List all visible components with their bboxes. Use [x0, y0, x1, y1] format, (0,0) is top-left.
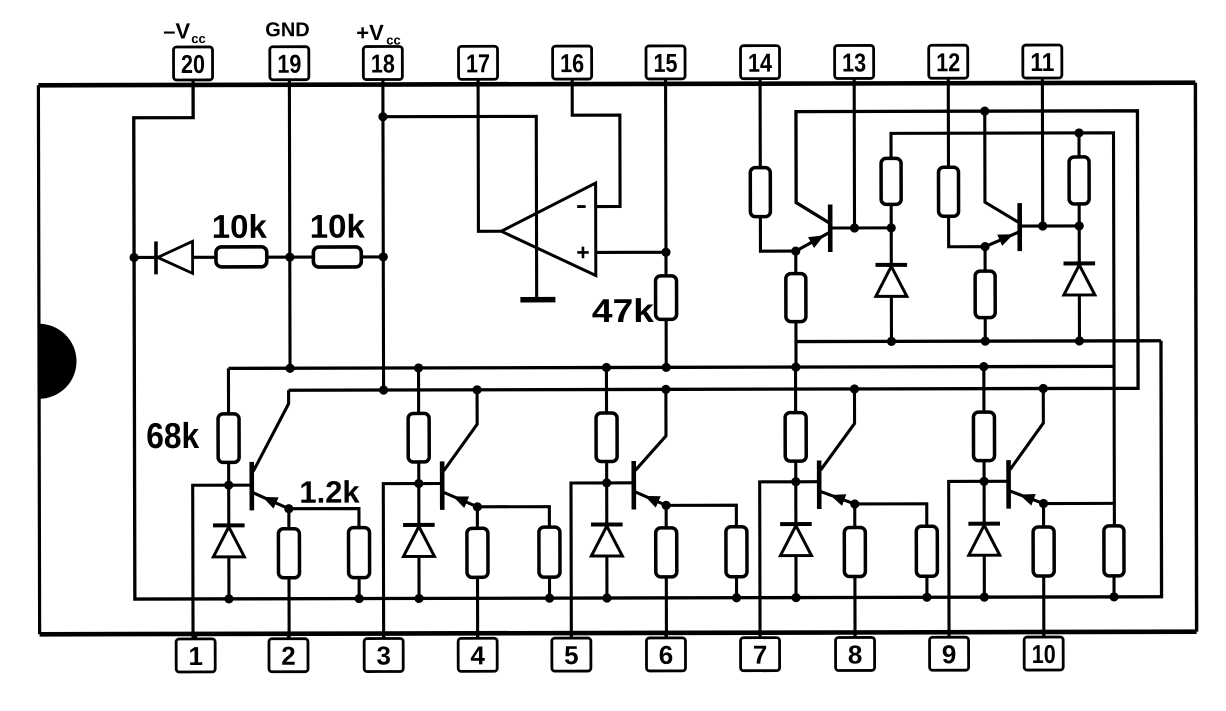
svg-text:68k: 68k — [146, 415, 200, 456]
svg-text:GND: GND — [265, 19, 310, 41]
svg-text:16: 16 — [560, 48, 584, 78]
svg-text:–V: –V — [163, 18, 190, 43]
svg-text:13: 13 — [842, 47, 866, 77]
svg-text:19: 19 — [277, 49, 301, 79]
svg-text:cc: cc — [191, 31, 206, 46]
svg-text:12: 12 — [936, 47, 960, 77]
svg-text:9: 9 — [942, 639, 957, 669]
svg-text:11: 11 — [1030, 47, 1054, 77]
svg-text:2: 2 — [281, 641, 296, 671]
svg-text:10: 10 — [1032, 639, 1056, 669]
svg-text:20: 20 — [181, 49, 205, 79]
svg-text:17: 17 — [466, 48, 490, 78]
svg-text:47k: 47k — [592, 292, 655, 329]
svg-text:+V: +V — [356, 20, 384, 45]
svg-text:15: 15 — [654, 48, 678, 78]
svg-text:14: 14 — [748, 48, 773, 78]
svg-text:7: 7 — [753, 640, 768, 670]
svg-text:1: 1 — [188, 641, 203, 671]
svg-text:6: 6 — [659, 640, 674, 670]
svg-text:cc: cc — [386, 32, 401, 47]
svg-text:10k: 10k — [310, 208, 366, 245]
svg-text:1.2k: 1.2k — [299, 475, 360, 510]
svg-text:10k: 10k — [212, 208, 268, 245]
svg-text:3: 3 — [376, 641, 391, 671]
svg-text:8: 8 — [848, 639, 863, 669]
svg-text:5: 5 — [564, 640, 579, 670]
svg-text:18: 18 — [371, 48, 395, 78]
svg-text:4: 4 — [470, 640, 485, 670]
